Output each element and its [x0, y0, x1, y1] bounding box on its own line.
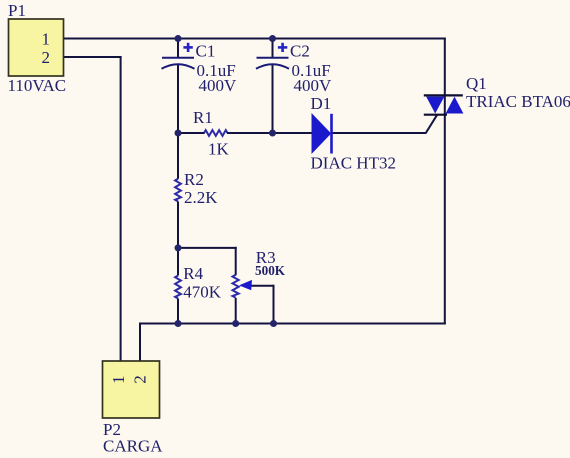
- wire R4 top lead: [177, 248, 179, 276]
- wire right vertical drop to TRIAC MT2: [444, 38, 446, 97]
- svg-text:Q1: Q1: [466, 74, 487, 93]
- svg-text:C1: C1: [196, 41, 216, 60]
- svg-text:CARGA: CARGA: [103, 437, 163, 456]
- svg-text:R4: R4: [183, 264, 203, 283]
- wire R3 wiper horizontal: [252, 285, 275, 287]
- svg-text:D1: D1: [311, 94, 332, 113]
- wire C2 stem lower to D1 node: [272, 64, 274, 134]
- transistor Q1 TRIAC top bar: [424, 94, 463, 96]
- svg-text:TRIAC BTA06: TRIAC BTA06: [466, 92, 570, 111]
- resistor R2 zigzag: [175, 179, 181, 202]
- capacitor C1 top plate: [162, 57, 194, 59]
- svg-text:2: 2: [131, 375, 150, 384]
- wire R3 wiper down to bottom bus: [273, 285, 275, 324]
- connector P2: [103, 361, 160, 418]
- wire R4 bottom lead: [177, 299, 179, 325]
- svg-text:C2: C2: [290, 41, 310, 60]
- svg-text:470K: 470K: [183, 283, 222, 302]
- wire riser bottom bus to P2 pin 2: [139, 323, 141, 362]
- junction node bus / R3: [232, 320, 239, 327]
- junction node bus / wiper: [270, 320, 277, 327]
- wire R2 top lead: [177, 133, 179, 179]
- junction node C1 / R1 / R2: [175, 130, 182, 137]
- wire R3 top lead vertical: [235, 247, 237, 275]
- svg-text:1K: 1K: [208, 140, 230, 159]
- capacitor C1 plus sign: [183, 43, 192, 52]
- transistor Q1 TRIAC left triangle: [426, 97, 444, 114]
- svg-text:400V: 400V: [199, 76, 238, 95]
- wire TRIAC MT1 down to bottom bus: [444, 95, 446, 325]
- svg-text:1: 1: [42, 30, 51, 49]
- svg-text:500K: 500K: [255, 263, 286, 278]
- svg-text:R2: R2: [184, 170, 204, 189]
- transistor Q1 TRIAC bottom bar: [424, 114, 447, 116]
- resistor R3 zigzag (potentiometer): [233, 275, 239, 298]
- transistor Q1 TRIAC gate diagonal: [426, 115, 438, 134]
- capacitor C2 bottom curved plate: [256, 64, 289, 69]
- R1 right lead: [227, 132, 273, 134]
- resistor R1 zigzag: [204, 130, 228, 136]
- wire node to D1 anode: [273, 132, 313, 134]
- wire C1 stem lower to R1 node: [177, 64, 179, 134]
- capacitor C2 plus sign: [278, 43, 287, 52]
- wire top bus from P1 pin1 to TRIAC MT2: [64, 38, 446, 40]
- capacitor C1 bottom curved plate: [162, 64, 195, 69]
- junction node top bus / C1: [175, 35, 182, 42]
- junction node bus / R4: [175, 320, 182, 327]
- connector P1: [9, 19, 64, 76]
- junction node top bus / C2: [269, 35, 276, 42]
- wire R2 bottom node to R3 top horizontal: [178, 247, 237, 249]
- svg-text:2: 2: [42, 48, 51, 67]
- svg-text:P1: P1: [8, 1, 26, 20]
- svg-text:1: 1: [109, 376, 128, 385]
- svg-text:400V: 400V: [294, 76, 333, 95]
- junction node R2 / R4 / R3: [175, 244, 182, 251]
- wire P1 pin 2 down to P2 pin 1: [120, 56, 122, 361]
- svg-text:R1: R1: [193, 108, 213, 127]
- transistor Q1 TRIAC right triangle: [446, 97, 464, 114]
- junction node C2 / R1 / D1: [269, 130, 276, 137]
- wire bottom bus: [140, 323, 446, 325]
- wire R3 bottom lead: [235, 298, 237, 324]
- R3 wiper arrow: [239, 280, 252, 290]
- wire P1 pin 2 horizontal: [64, 56, 122, 58]
- svg-text:2.2K: 2.2K: [184, 188, 218, 207]
- wire C2 stem upper: [272, 39, 274, 58]
- wire D1 cathode to TRIAC gate: [332, 132, 426, 134]
- svg-text:110VAC: 110VAC: [8, 76, 67, 95]
- diode D1 DIAC cathode bar: [330, 114, 333, 154]
- wire R2 bottom lead: [177, 202, 179, 249]
- resistor R4 zigzag: [175, 276, 181, 299]
- diode D1 DIAC triangle: [312, 114, 331, 153]
- capacitor C2 top plate: [257, 57, 289, 59]
- svg-text:DIAC HT32: DIAC HT32: [311, 154, 396, 173]
- R1 left lead: [178, 132, 205, 134]
- wire C1 stem upper: [177, 39, 179, 58]
